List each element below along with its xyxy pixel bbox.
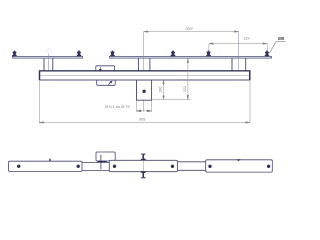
bolt B1 (12, 51, 17, 57)
main beam (39, 71, 250, 80)
M8 leader (276, 41, 286, 43)
plate width dim (137, 101, 152, 112)
left bracket (43, 58, 45, 71)
beam top edge (39, 70, 250, 72)
dim 700 line (144, 31, 239, 33)
dim 222 (152, 58, 190, 99)
svg-text:160: 160 (159, 87, 163, 93)
svg-text:700*: 700* (185, 26, 194, 31)
piece C hole 2 (267, 165, 270, 168)
center assembly centerline (143, 32, 145, 111)
top box on bar (96, 152, 115, 161)
bottom view piece B (109, 160, 177, 171)
right bracket centerline (238, 32, 240, 71)
piece A hole 1 (17, 165, 20, 168)
bolt B2 (77, 51, 82, 57)
screws centerline (142, 155, 144, 178)
dim 119 line (209, 43, 267, 52)
dim 905 (39, 81, 250, 123)
beam left end cap (39, 71, 41, 80)
bolt B3 (110, 51, 115, 57)
cross mark (100, 155, 102, 169)
piece B hole 1 (113, 165, 116, 168)
svg-text:905: 905 (139, 117, 146, 122)
top screw (140, 154, 147, 161)
piece A hole 2 (77, 165, 80, 168)
bottom view piece A (9, 161, 83, 171)
center hole plate (137, 80, 152, 100)
right bracket (231, 58, 233, 71)
beam right end cap (249, 71, 251, 80)
piece B hole 2 (171, 165, 174, 168)
connector AB (82, 161, 109, 163)
svg-text:222: 222 (183, 86, 187, 92)
svg-text:M8: M8 (278, 36, 284, 41)
rail left segment (13, 56, 83, 58)
bolt B5 (206, 51, 211, 57)
tick on piece C (237, 159, 241, 161)
lower plate arrow (110, 81, 113, 84)
lower clamp plate (97, 80, 116, 85)
rail center segment (110, 56, 272, 58)
bolt B6 (M8) (265, 51, 270, 57)
svg-text:Ø 6.1 on Ø 79: Ø 6.1 on Ø 79 (105, 104, 129, 109)
center bracket (137, 58, 139, 71)
dim 160 (163, 80, 165, 99)
bolt B4 (171, 51, 176, 57)
bottom view piece C (206, 160, 273, 172)
connector BC (178, 161, 206, 163)
upper plate arrow (99, 69, 102, 72)
left bracket centerline (47, 54, 49, 74)
bottom screw (140, 171, 147, 178)
upper clamp plate (96, 66, 115, 71)
hole (142, 90, 145, 93)
piece C hole 1 (208, 165, 211, 168)
beam mid line (40, 75, 250, 77)
faint circle above left bracket (47, 49, 51, 53)
svg-text:119: 119 (243, 37, 249, 41)
upper plate mark line (99, 67, 101, 73)
tick on piece A (49, 159, 50, 162)
